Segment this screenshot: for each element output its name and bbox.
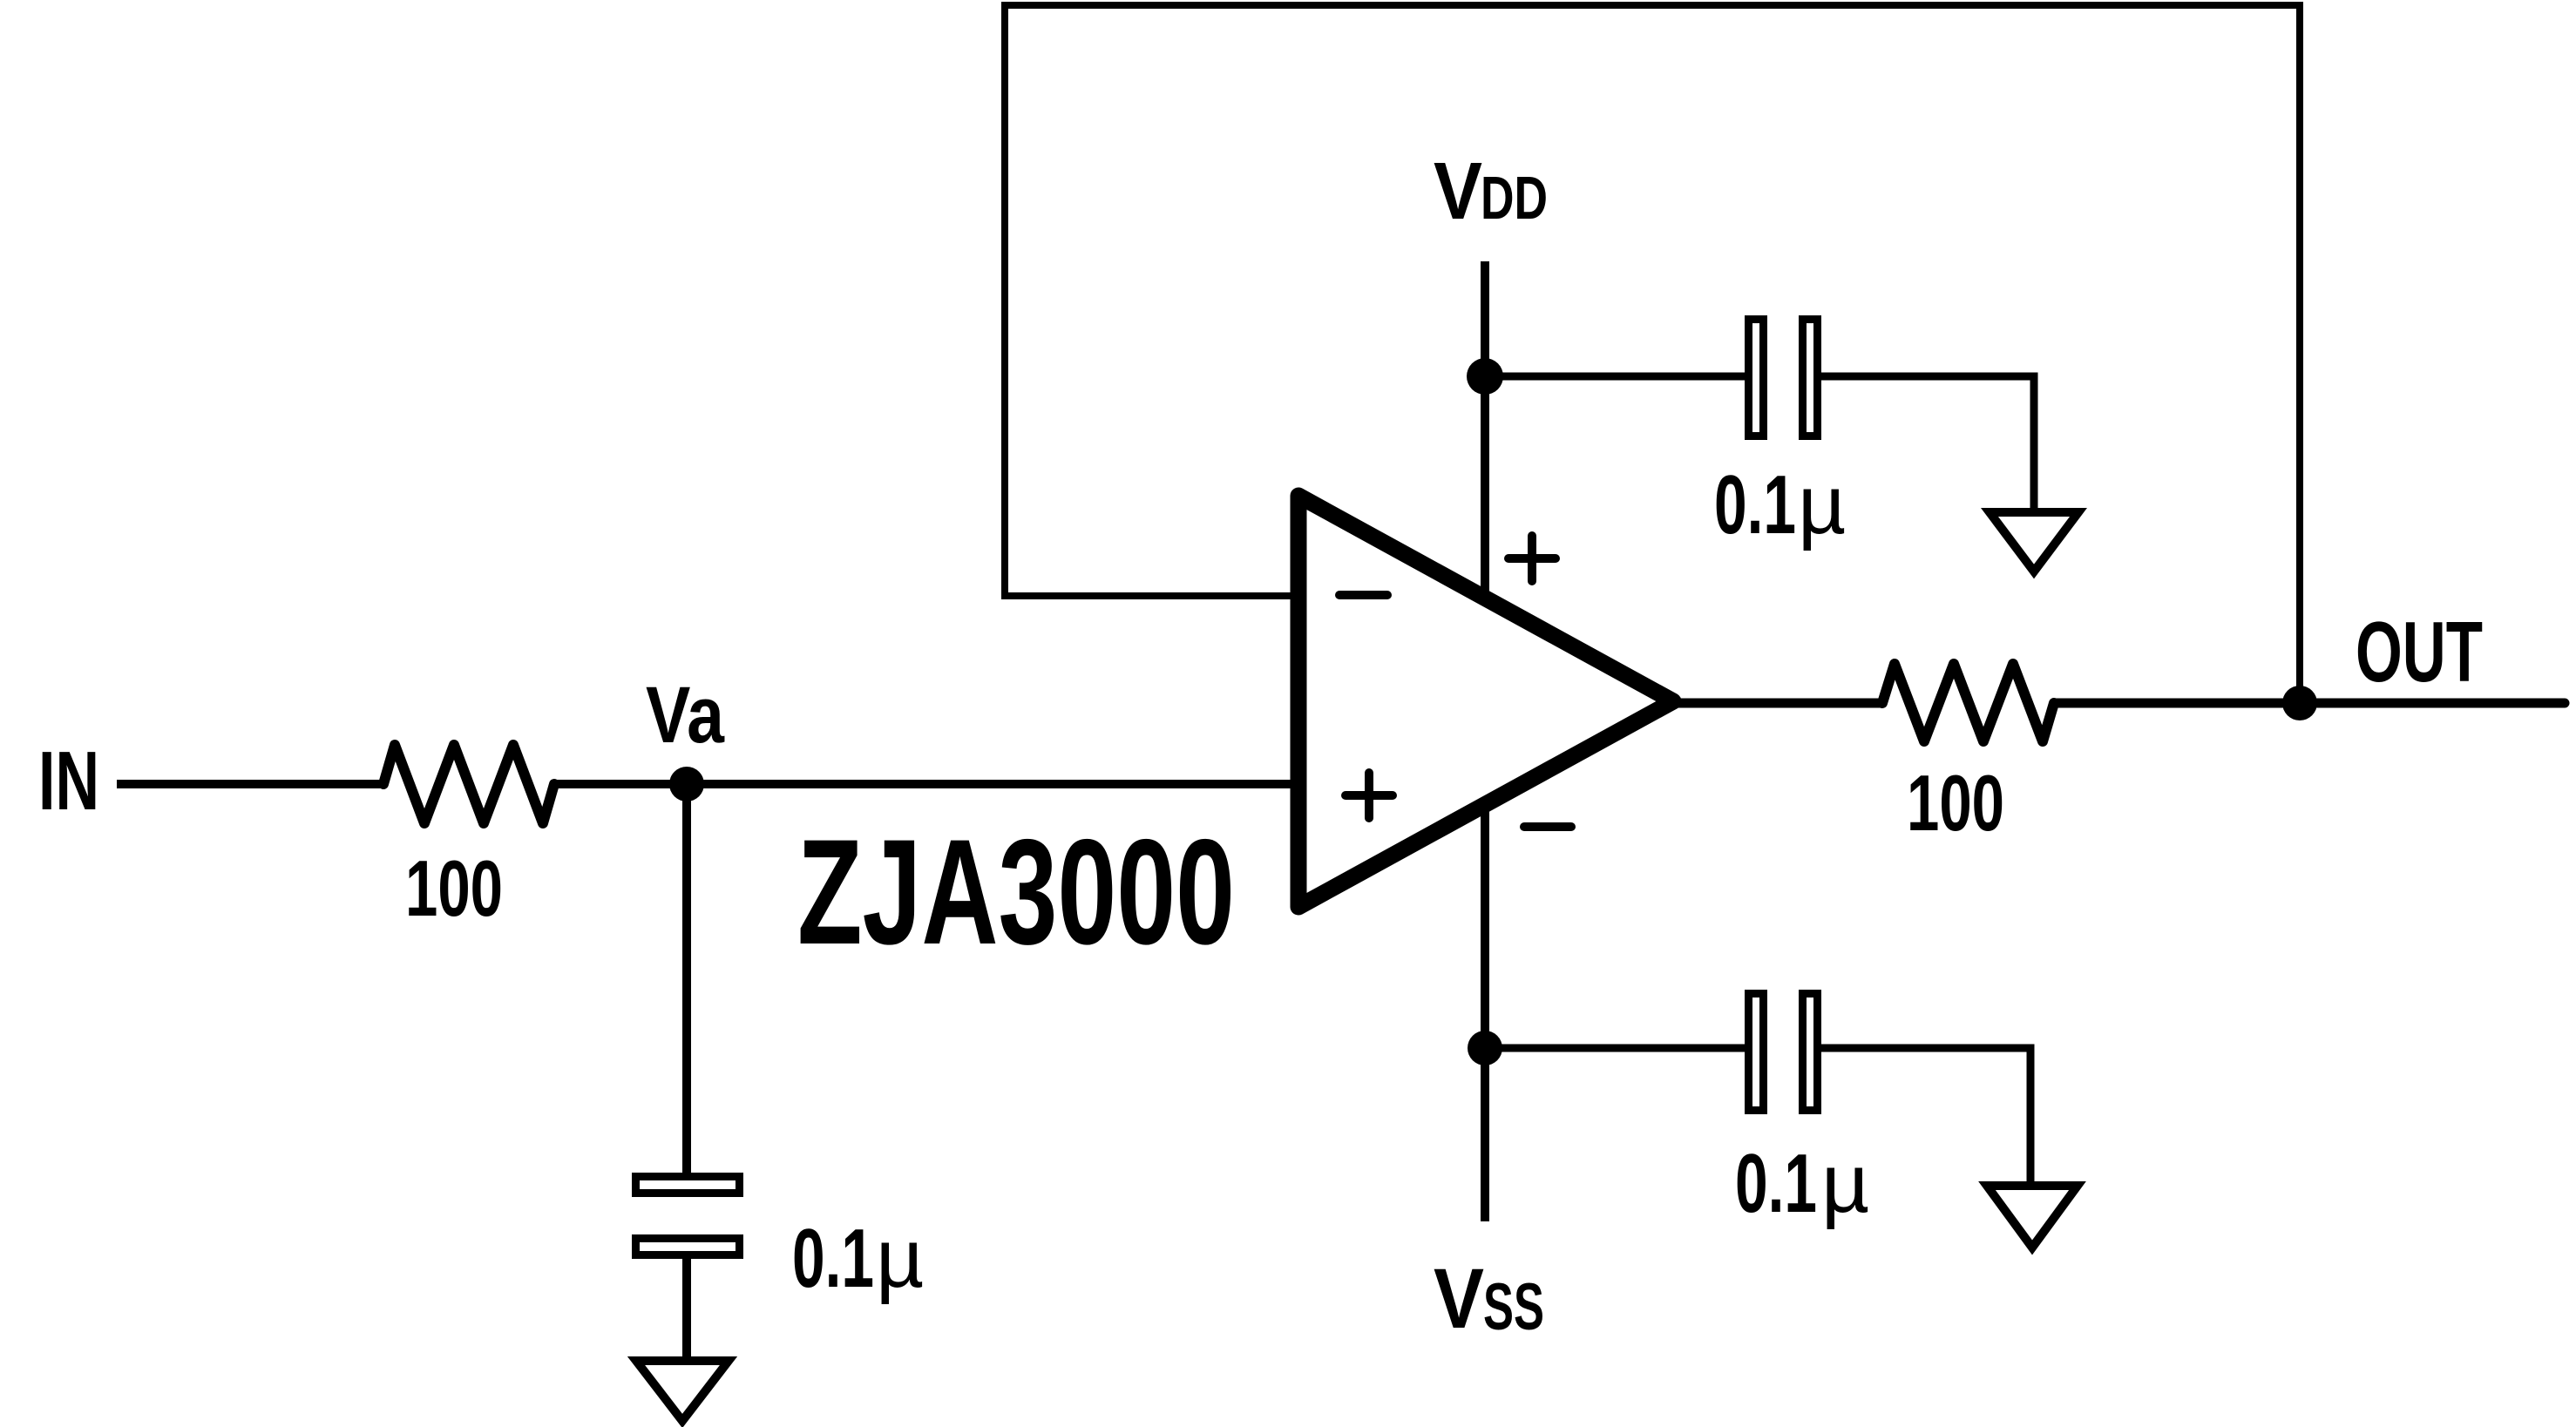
wire VDD to capacitor C2 bbox=[1485, 373, 1748, 381]
capacitor C2 0.1u plate 2 bbox=[1803, 320, 1818, 436]
capacitor C1 0.1u plate 2 bbox=[636, 1239, 740, 1255]
svg-text:0.1: 0.1 bbox=[792, 1212, 874, 1305]
wire VSS to capacitor C3 bbox=[1485, 1045, 1748, 1052]
svg-text:DD: DD bbox=[1481, 164, 1548, 232]
svg-text:0.1: 0.1 bbox=[1714, 458, 1796, 551]
wire Va to op-amp noninverting input bbox=[554, 780, 1304, 788]
svg-text:0.1: 0.1 bbox=[1735, 1137, 1817, 1230]
svg-text:ZJA3000: ZJA3000 bbox=[797, 808, 1235, 976]
wire C3 to ground bbox=[1820, 1048, 2030, 1185]
op-amp U1 ZJA3000 triangle bbox=[1298, 496, 1673, 907]
svg-text:V: V bbox=[1434, 145, 1482, 236]
ground symbol (C3) bbox=[1987, 1186, 2078, 1248]
op-amp V+ supply marker (plus, outside near VDD) bbox=[1508, 554, 1556, 563]
resistor R1 100 (input) bbox=[383, 745, 554, 823]
svg-text:Va: Va bbox=[646, 671, 725, 760]
wire C2 to ground bbox=[1820, 376, 2034, 512]
op-amp noninverting input marker (plus, inside bottom) bbox=[1346, 791, 1393, 800]
VDD supply stem bbox=[1481, 261, 1489, 610]
ground symbol (below C1) bbox=[636, 1361, 729, 1421]
wire C1 to ground bbox=[682, 1259, 691, 1359]
op-amp inverting input marker (minus, inside top) bbox=[1339, 591, 1387, 599]
node Va junction dot bbox=[669, 767, 704, 801]
svg-text:100: 100 bbox=[1907, 760, 2004, 848]
op-amp V- supply marker (minus, outside near VSS) bbox=[1524, 822, 1571, 831]
capacitor C3 0.1u plate 2 bbox=[1803, 994, 1818, 1111]
wire IN lead bbox=[117, 780, 383, 788]
svg-text:100: 100 bbox=[405, 845, 503, 933]
node VDD junction dot bbox=[1467, 358, 1503, 395]
resistor R2 100 (output) bbox=[1882, 664, 2054, 741]
svg-text:µ: µ bbox=[876, 1212, 924, 1305]
svg-text:V: V bbox=[1434, 1251, 1484, 1346]
node OUT junction dot bbox=[2282, 686, 2317, 720]
capacitor C2 0.1u plate 1 bbox=[1749, 320, 1764, 436]
feedback wire loop: inverting input up-over to OUT node bbox=[1005, 5, 2300, 703]
VSS supply stem bbox=[1481, 793, 1489, 1221]
capacitor C3 0.1u plate 1 bbox=[1749, 994, 1764, 1111]
svg-text:µ: µ bbox=[1798, 458, 1846, 551]
svg-text:SS: SS bbox=[1483, 1270, 1544, 1344]
svg-text:µ: µ bbox=[1821, 1137, 1869, 1230]
ground symbol (C2) bbox=[1990, 512, 2078, 571]
wire Va node to capacitor C1 bbox=[682, 784, 691, 1174]
wire R2 to OUT bbox=[2054, 699, 2565, 708]
wire op-amp output to resistor R2 bbox=[1671, 699, 1882, 708]
svg-text:IN: IN bbox=[38, 734, 99, 828]
node VSS junction dot bbox=[1468, 1031, 1502, 1065]
svg-text:OUT: OUT bbox=[2356, 604, 2483, 700]
capacitor C1 0.1u plate 1 bbox=[636, 1177, 740, 1194]
